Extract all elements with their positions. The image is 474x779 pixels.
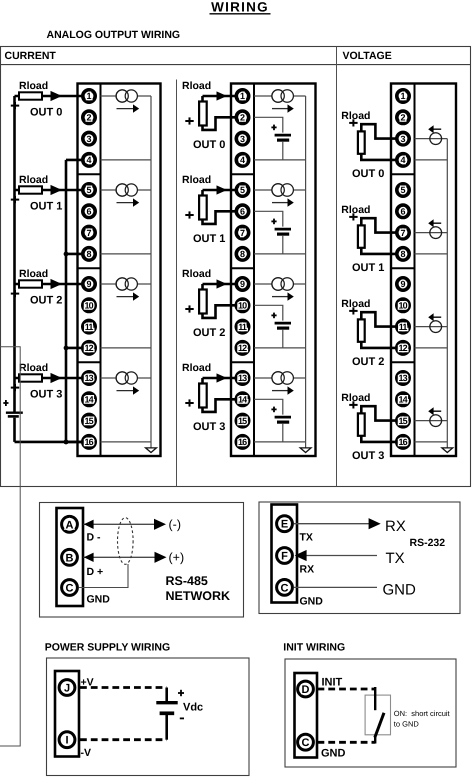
middle strip divider above group 3 [231, 361, 254, 363]
current direction arrow OUT 2 (current col) [117, 292, 140, 300]
arrow into terminal B [84, 553, 94, 562]
terminal 11 (voltage) [397, 320, 409, 332]
Vdc - label [180, 717, 184, 719]
terminal 9 (middle) [236, 278, 248, 290]
svg-text:11: 11 [85, 322, 94, 332]
internal wire terminal 16 to bus (voltage) [415, 441, 448, 443]
terminal 2 (voltage) [397, 111, 409, 123]
internal wire terminal 1 to current source [101, 95, 152, 97]
svg-text:5: 5 [86, 185, 91, 195]
terminal 16 (middle) [236, 436, 248, 448]
+ label OUT 2 (current) [11, 290, 19, 297]
external wire from left edge into supply loop [0, 347, 20, 746]
terminal 4 (middle) [236, 154, 248, 166]
svg-text:15: 15 [398, 416, 407, 426]
terminal 14 (middle) [236, 393, 248, 405]
wire Rload bottom to terminal 12 (voltage) [361, 341, 403, 348]
svg-text:7: 7 [86, 228, 91, 238]
terminal 10 (current) [83, 299, 95, 311]
wire Vdc bottom [165, 715, 168, 740]
svg-text:2: 2 [400, 113, 405, 123]
wire terminal 4 to return bus [66, 159, 89, 162]
svg-text:8: 8 [240, 249, 245, 259]
svg-text:3: 3 [400, 134, 405, 144]
svg-text:OUT 2: OUT 2 [193, 327, 225, 339]
terminal 10 (voltage) [397, 299, 409, 311]
junction on return bus at terminal 8 [64, 252, 69, 257]
svg-text:12: 12 [84, 343, 93, 353]
svg-text:8: 8 [86, 249, 91, 259]
svg-text:GND: GND [300, 596, 324, 608]
terminal 4 (current) [83, 154, 95, 166]
svg-text:1: 1 [240, 91, 245, 101]
terminal 16 (current) [83, 436, 95, 448]
voltage arrow OUT 3 [428, 407, 441, 415]
wire Rload top to terminal 7 (voltage) [361, 218, 403, 232]
svg-text:Rload: Rload [182, 268, 211, 280]
internal wire terminal 4 to bus (voltage) [415, 159, 448, 161]
svg-text:Rload: Rload [19, 268, 48, 280]
internal wire terminal 11 to bus (voltage) [415, 326, 448, 328]
svg-text:OUT 0: OUT 0 [352, 168, 384, 180]
current source OUT 2 (middle col) [272, 278, 294, 290]
wire terminal E (TX out) [294, 523, 369, 525]
+ label OUT 1 (middle) [185, 211, 193, 218]
wire Rload bottom to terminal 16 (voltage) [361, 435, 403, 442]
internal wire terminal 1 to current source (middle) [254, 95, 306, 97]
voltage source circle OUT 1 [430, 227, 442, 239]
svg-text:B: B [66, 552, 74, 564]
current strip divider above group 3 [78, 361, 101, 363]
svg-text:OUT 1: OUT 1 [193, 233, 225, 245]
+ label OUT 3 (current) [11, 384, 19, 391]
arrow into terminal 1 [51, 91, 63, 101]
terminal 8 (middle) [236, 248, 248, 260]
middle terminal strip [231, 84, 254, 457]
arrow into terminal 1 (middle) [217, 91, 228, 100]
svg-text:C: C [66, 582, 74, 594]
title: WIRING [210, 0, 271, 15]
svg-text:Rload: Rload [341, 392, 370, 404]
capacitor C3 (middle col) [275, 417, 291, 422]
voltage arrow OUT 1 [428, 219, 441, 227]
ground symbol (current col) [146, 448, 157, 453]
svg-text:13: 13 [84, 373, 93, 383]
svg-text:RX: RX [300, 564, 315, 576]
internal wire terminal 14 to capacitor (middle) [254, 399, 283, 414]
svg-text:1: 1 [400, 91, 405, 101]
arrow into terminal 13 [51, 373, 63, 383]
terminal 15 (voltage) [397, 414, 409, 426]
wire terminal C (GND) [294, 586, 377, 588]
resistor Rload OUT 3 (middle) [199, 384, 207, 408]
capacitor C2 + label [271, 313, 276, 319]
terminal B [62, 549, 78, 565]
capacitor C0 (middle col) [275, 135, 291, 140]
RS-232 terminal strip [272, 505, 298, 603]
svg-text:-V: -V [81, 747, 92, 759]
resistor Rload OUT 2 (middle) [199, 290, 207, 314]
internal wire terminal 16 to bus (current col) [101, 441, 152, 443]
+ label OUT 0 (middle) [185, 117, 193, 124]
current direction arrow OUT 3 (middle col) [272, 386, 294, 394]
svg-text:10: 10 [238, 301, 247, 311]
internal wire terminal 2 to capacitor (middle) [254, 117, 283, 132]
switch enclosure [365, 695, 390, 735]
internal wire terminal 15 to bus (voltage) [415, 420, 448, 422]
svg-text:3: 3 [86, 134, 91, 144]
internal wire terminal 4 to bus (current col) [101, 159, 152, 161]
terminal 1 (current) [83, 90, 95, 102]
wire terminal 16 to return bus [66, 441, 89, 444]
wire Rload top to terminal 13 (middle) [203, 377, 243, 380]
internal ground bus (current col) [150, 96, 152, 448]
terminal 5 (middle) [236, 184, 248, 196]
svg-text:4: 4 [240, 155, 245, 165]
junction on return bus at terminal 16 [64, 440, 69, 445]
capacitor C2 (middle col) [275, 323, 291, 328]
current source OUT 0 (middle col) [272, 90, 294, 102]
svg-text:Rload: Rload [19, 174, 48, 186]
svg-text:5: 5 [240, 185, 245, 195]
terminal 12 (current) [83, 342, 95, 354]
svg-text:D: D [302, 684, 310, 696]
svg-text:Rload: Rload [182, 362, 211, 374]
internal wire terminal 5 to current source (middle) [254, 189, 306, 191]
svg-text:I: I [65, 735, 68, 747]
terminal 1 (middle) [236, 90, 248, 102]
wire Rload top to terminal 3 (voltage) [361, 124, 403, 138]
terminal 7 (voltage) [397, 226, 409, 238]
svg-text:NETWORK: NETWORK [166, 589, 231, 603]
arrow into terminal A [84, 520, 94, 529]
svg-text:OUT 3: OUT 3 [352, 450, 384, 462]
voltage strip divider above group 2 [391, 267, 415, 269]
svg-text:OUT 3: OUT 3 [30, 389, 62, 401]
svg-text:16: 16 [84, 437, 93, 447]
internal wire terminal 12 to bus (current col) [101, 347, 152, 349]
battery + label [3, 400, 8, 406]
terminal 15 (middle) [236, 414, 248, 426]
svg-text:OUT 1: OUT 1 [352, 262, 384, 274]
current source OUT 3 (current col) [116, 372, 137, 384]
voltage source circle OUT 2 [430, 321, 442, 333]
wire Rload top to terminal 1 (middle) [203, 95, 243, 98]
svg-text:GND: GND [383, 581, 417, 598]
divider of voltage section [336, 47, 338, 487]
terminal C (RS-485 GND) [62, 580, 78, 596]
terminal 3 (voltage) [397, 132, 409, 144]
svg-text:OUT 2: OUT 2 [30, 295, 62, 307]
svg-text:9: 9 [400, 279, 405, 289]
+ label OUT 0 (current) [11, 102, 19, 109]
internal wire terminal 8 to bus (current col) [101, 253, 152, 255]
terminal E [277, 516, 293, 532]
svg-text:15: 15 [84, 416, 93, 426]
terminal 4 (voltage) [397, 154, 409, 166]
svg-text:TX: TX [386, 550, 405, 567]
cable shield ellipse [118, 518, 134, 565]
terminal 8 (current) [83, 248, 95, 260]
svg-text:Rload: Rload [19, 80, 48, 92]
svg-text:16: 16 [398, 437, 407, 447]
internal wire terminal 12 to bus (middle) [254, 347, 306, 349]
terminal 15 (current) [83, 414, 95, 426]
wire terminal B line (D+) [84, 556, 155, 558]
svg-text:12: 12 [398, 343, 407, 353]
svg-text:F: F [281, 550, 288, 562]
svg-text:1: 1 [86, 91, 91, 101]
current direction arrow OUT 1 (middle col) [272, 198, 294, 206]
init terminal strip [295, 673, 318, 758]
internal wire terminal 10 to capacitor (middle) [254, 305, 283, 320]
wire terminal F (RX in) [306, 555, 377, 557]
terminal 12 (voltage) [397, 342, 409, 354]
terminal 2 (middle) [236, 111, 248, 123]
current source OUT 3 (middle col) [272, 372, 294, 384]
+ label OUT 3 (voltage) [349, 401, 357, 408]
internal wire terminal 13 to current source [101, 377, 152, 379]
middle strip divider above group 1 [231, 173, 254, 175]
terminal 14 (current) [83, 393, 95, 405]
middle strip divider above group 2 [231, 267, 254, 269]
arrow into terminal 5 (middle) [217, 185, 228, 194]
svg-text:10: 10 [398, 301, 407, 311]
wire Rload top to terminal 15 (voltage) [361, 406, 403, 420]
svg-text:Rload: Rload [182, 174, 211, 186]
capacitor C3 + label [271, 407, 276, 413]
capacitor C1 + label [271, 219, 276, 225]
wire terminal 12 to return bus [66, 347, 89, 350]
terminal 8 (voltage) [397, 248, 409, 260]
return bus wire (current) [65, 160, 68, 442]
terminal 7 (middle) [236, 226, 248, 238]
terminal 11 (current) [83, 320, 95, 332]
svg-text:RS-232: RS-232 [410, 537, 446, 549]
svg-text:POWER SUPPLY WIRING: POWER SUPPLY WIRING [45, 641, 170, 653]
internal wire terminal 4 to bus (middle) [254, 159, 306, 161]
RS-485 network box [40, 503, 244, 618]
svg-text:Rload: Rload [341, 110, 370, 122]
svg-text:11: 11 [238, 322, 247, 332]
dashed wire -V to Vdc [80, 738, 167, 741]
wire capacitor to terminal-16 line (middle) [282, 424, 284, 442]
svg-text:ON: short circuit: ON: short circuit [394, 709, 451, 718]
+ label OUT 1 (current) [11, 196, 19, 203]
current direction arrow OUT 2 (middle col) [272, 292, 294, 300]
terminal 11 (middle) [236, 320, 248, 332]
svg-text:6: 6 [400, 207, 405, 217]
terminal 9 (voltage) [397, 278, 409, 290]
internal wire terminal 7 to bus (voltage) [415, 232, 448, 234]
resistor Rload OUT 3 (current) [19, 374, 42, 381]
terminal 3 (middle) [236, 132, 248, 144]
resistor Rload OUT 1 (middle) [199, 196, 207, 220]
arrow into terminal 9 (middle) [217, 279, 228, 288]
arrow into terminal 5 [51, 185, 63, 195]
svg-text:2: 2 [240, 113, 245, 123]
RS-232 box [259, 502, 460, 614]
svg-text:5: 5 [400, 185, 405, 195]
terminal 16 (voltage) [397, 436, 409, 448]
dashed wire +V to Vdc [80, 686, 167, 689]
wire Rload top to terminal 11 (voltage) [361, 312, 403, 326]
terminal 14 (voltage) [397, 393, 409, 405]
voltage arrow OUT 2 [428, 313, 441, 321]
terminal 6 (voltage) [397, 205, 409, 217]
terminal D [298, 681, 314, 697]
internal wire terminal 8 to bus (voltage) [415, 253, 448, 255]
svg-text:6: 6 [240, 207, 245, 217]
arrow into terminal 13 (middle) [217, 373, 228, 382]
svg-text:ANALOG OUTPUT WIRING: ANALOG OUTPUT WIRING [47, 29, 181, 41]
voltage arrow OUT 0 [428, 125, 441, 133]
terminal 5 (current) [83, 184, 95, 196]
wire capacitor to terminal-4 line (middle) [282, 142, 284, 160]
wire resistor bottom to terminal 2 (middle) [203, 117, 243, 130]
dashed wire D to switch [318, 688, 376, 691]
svg-text:3: 3 [240, 134, 245, 144]
wire Rload top to terminal 9 (middle) [203, 283, 243, 286]
terminal 1 (voltage) [397, 90, 409, 102]
current direction arrow OUT 1 (current col) [117, 198, 140, 206]
terminal 2 (current) [83, 111, 95, 123]
wire stub resistor top (middle OUT 1) [201, 190, 204, 197]
svg-text:C: C [302, 737, 310, 749]
wire resistor bottom to terminal 6 (middle) [203, 211, 243, 224]
battery Vdc [156, 703, 177, 714]
internal wire terminal 13 to current source (middle) [254, 377, 306, 379]
terminal 13 (voltage) [397, 372, 409, 384]
RS-485 terminal strip [57, 508, 84, 606]
svg-text:2: 2 [86, 113, 91, 123]
svg-text:9: 9 [240, 279, 245, 289]
+ label OUT 0 (voltage) [349, 119, 357, 126]
svg-text:7: 7 [400, 228, 405, 238]
terminal F [277, 548, 293, 564]
wire Rload to terminal 13 [15, 377, 90, 380]
svg-text:14: 14 [84, 395, 93, 405]
internal wire terminal 8 to bus (middle) [254, 253, 306, 255]
resistor Rload OUT 0 (current) [19, 92, 42, 99]
svg-text:INIT: INIT [322, 676, 343, 688]
svg-text:WIRING: WIRING [211, 0, 269, 15]
current strip divider above group 2 [78, 267, 101, 269]
wire battery to bottom bus [13, 418, 16, 442]
terminal 9 (current) [83, 278, 95, 290]
svg-text:4: 4 [400, 155, 405, 165]
svg-text:J: J [64, 682, 70, 694]
svg-text:4: 4 [86, 155, 91, 165]
resistor Rload OUT 1 (voltage) [358, 225, 365, 247]
current direction arrow OUT 3 (current col) [117, 386, 140, 394]
svg-text:E: E [281, 519, 288, 531]
svg-text:OUT 0: OUT 0 [30, 107, 62, 119]
current direction arrow OUT 0 (current col) [117, 104, 140, 112]
arrow to (+) line [155, 552, 167, 563]
internal wire terminal 16 to bus (middle) [254, 441, 306, 443]
svg-text:D -: D - [87, 531, 102, 543]
svg-text:C: C [281, 582, 289, 594]
wire Rload top to terminal 5 (middle) [203, 189, 243, 192]
power supply terminal strip [55, 671, 79, 757]
terminal 13 (current) [83, 372, 95, 384]
current terminal strip [78, 84, 101, 457]
ground symbol (voltage col) [442, 448, 453, 453]
svg-text:(+): (+) [169, 551, 185, 565]
svg-text:Rload: Rload [341, 204, 370, 216]
svg-text:12: 12 [238, 343, 247, 353]
svg-text:INIT WIRING: INIT WIRING [283, 641, 345, 653]
dashed wire C to switch [318, 741, 376, 744]
junction on bottom wire [64, 440, 69, 445]
internal ground bus (middle col) [305, 96, 307, 448]
svg-text:TX: TX [300, 532, 313, 544]
power supply box [47, 658, 250, 776]
svg-text:Rload: Rload [341, 298, 370, 310]
current source OUT 2 (current col) [116, 278, 137, 290]
terminal 3 (current) [83, 132, 95, 144]
svg-text:OUT 1: OUT 1 [30, 201, 62, 213]
svg-text:14: 14 [238, 395, 247, 405]
svg-text:OUT 0: OUT 0 [193, 139, 225, 151]
resistor Rload OUT 0 (middle) [199, 102, 207, 126]
voltage terminal strip [391, 84, 415, 457]
+ label OUT 1 (voltage) [349, 213, 357, 220]
current strip divider above group 1 [78, 173, 101, 175]
init box [285, 659, 456, 767]
terminal C (init GND) [298, 734, 314, 750]
terminal I [59, 732, 75, 748]
svg-text:13: 13 [398, 373, 407, 383]
divider between current and middle section [176, 80, 178, 487]
+ label OUT 3 (middle) [185, 399, 193, 406]
svg-text:VOLTAGE: VOLTAGE [343, 50, 392, 62]
switch SW1 (init to GND) [375, 687, 384, 744]
resistor Rload OUT 2 (voltage) [358, 319, 365, 341]
resistor Rload OUT 2 (current) [19, 280, 42, 287]
internal wire terminal 9 to current source (middle) [254, 283, 306, 285]
svg-text:to GND: to GND [394, 719, 420, 728]
arrow into terminal 9 [51, 279, 63, 289]
svg-text:D +: D + [87, 566, 104, 578]
current source OUT 0 (current col) [116, 90, 137, 102]
arrow to RX [369, 518, 381, 529]
current source OUT 1 (current col) [116, 184, 137, 196]
svg-text:Vdc: Vdc [183, 702, 203, 714]
svg-text:9: 9 [86, 279, 91, 289]
svg-text:14: 14 [398, 395, 407, 405]
arrow into terminal F [295, 550, 307, 561]
svg-text:CURRENT: CURRENT [5, 50, 57, 62]
capacitor C1 (middle col) [275, 229, 291, 234]
terminal 6 (middle) [236, 205, 248, 217]
header underline [1, 64, 471, 66]
resistor Rload OUT 3 (voltage) [358, 413, 365, 435]
terminal C (RS-232 GND) [277, 580, 293, 596]
current source OUT 1 (middle col) [272, 184, 294, 196]
voltage strip divider above group 3 [391, 361, 415, 363]
+ label OUT 2 (middle) [185, 305, 193, 312]
svg-text:8: 8 [400, 249, 405, 259]
internal wire terminal 5 to current source [101, 189, 152, 191]
voltage column device box [391, 84, 456, 457]
capacitor C0 + label [271, 125, 276, 131]
resistor Rload OUT 1 (current) [19, 186, 42, 193]
svg-text:15: 15 [238, 416, 247, 426]
svg-text:16: 16 [238, 437, 247, 447]
internal wire terminal 3 to bus (voltage) [415, 138, 448, 140]
